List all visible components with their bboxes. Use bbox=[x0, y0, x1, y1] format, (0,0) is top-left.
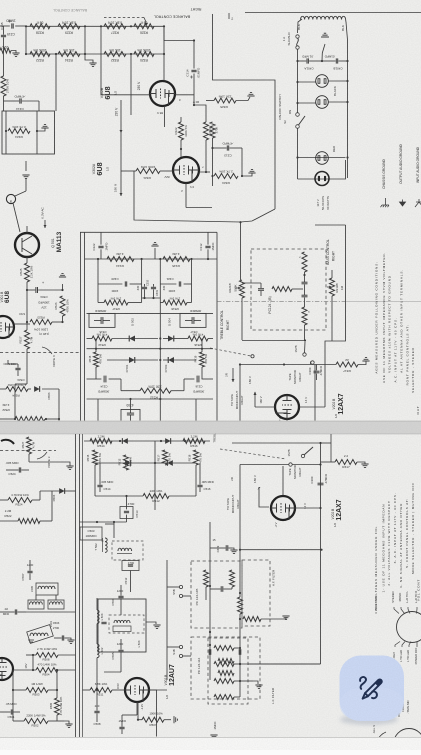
wire second rail bbox=[26, 53, 164, 55]
ground R317 bbox=[358, 361, 366, 365]
resistor R523 120K bbox=[14, 323, 30, 325]
resistor R527 4.7M bbox=[26, 322, 28, 330]
capacitor pc board in bbox=[258, 288, 264, 290]
floating edit button shadow bbox=[0, 0, 1, 1]
resistor 22K input bbox=[0, 48, 11, 53]
wire hf top rail bbox=[240, 549, 322, 551]
resistor pc112 r2 bbox=[218, 671, 234, 676]
resistor R321 100K 10% bbox=[121, 170, 136, 172]
transistor Q501 MA113 bbox=[15, 233, 39, 257]
capacitor C214 .47MFD bbox=[19, 98, 21, 103]
wire top border bbox=[245, 12, 421, 14]
wire big box corner bbox=[320, 663, 322, 665]
wire bottom-left links bbox=[51, 491, 53, 521]
wire D506 junction bbox=[58, 389, 60, 419]
wire C314 to R324 bbox=[194, 105, 206, 112]
triode V301Bb arc bbox=[1, 440, 14, 444]
resistor pc bottom bbox=[302, 307, 307, 325]
diode D506b bbox=[59, 488, 65, 494]
ground power bbox=[321, 33, 329, 37]
resistor R515 47K 5% vertical bbox=[94, 352, 99, 367]
resistor R317b 22 bbox=[335, 460, 357, 465]
resistor R511 6.8K 10% bbox=[90, 688, 112, 693]
resistor pc165 r2 bbox=[230, 570, 235, 587]
diode D501 bbox=[129, 357, 135, 363]
resistor lf r4 bbox=[214, 695, 234, 700]
wire long drop from divider bbox=[55, 54, 57, 111]
capacitor C318 330 bbox=[142, 286, 147, 288]
switch S1B tape monitor bbox=[303, 353, 306, 356]
resistor R503 1M bbox=[26, 688, 48, 693]
capacitor C313 .47MFD bbox=[226, 145, 228, 150]
dashed box HF filter bbox=[242, 560, 270, 626]
resistor R144 2.2M bbox=[107, 257, 134, 262]
wire matrix rail bottom strip bbox=[84, 440, 210, 442]
resistor pc board series bbox=[272, 287, 292, 292]
wire V302B cathode to C314 bbox=[175, 94, 194, 96]
wire V302A plate drop bbox=[185, 183, 187, 208]
wire center links bbox=[142, 297, 161, 299]
pen scribble icon bbox=[360, 677, 383, 700]
wire L coils link bbox=[96, 598, 98, 610]
wire after switch bbox=[297, 128, 299, 179]
ground line cap bbox=[322, 44, 325, 61]
lamp a bbox=[6, 194, 15, 203]
resistor R507 100K 10% bbox=[142, 717, 164, 722]
ground L504 bbox=[146, 622, 156, 624]
ground R323 bbox=[242, 173, 252, 176]
ground R325 bbox=[236, 97, 250, 101]
resistor R504b 470 bbox=[36, 668, 58, 673]
capacitor C219 1MFD bbox=[11, 23, 13, 28]
wire feed to treble pot bbox=[240, 222, 242, 280]
switch S5B bbox=[179, 585, 182, 588]
resistor lf r1 bbox=[214, 646, 234, 651]
capacitor pc112 c2 bbox=[238, 649, 240, 655]
triode V202B 1/2 12AX7 bbox=[275, 395, 299, 419]
diode D514 bbox=[165, 438, 171, 444]
resistor R317 22 bbox=[317, 364, 337, 366]
ground stub bottom-left bbox=[62, 462, 70, 466]
input audio ground symbol bbox=[415, 199, 421, 207]
dashed box PC124-165 bbox=[191, 561, 242, 628]
resistor R526 470K bbox=[60, 296, 65, 316]
resistor R222 100K 5% bbox=[30, 52, 50, 57]
fold band divider bbox=[0, 421, 421, 435]
resistor R513b 47K 5% bbox=[124, 455, 129, 470]
resistor R325 22K 10% bbox=[206, 100, 214, 102]
wire phono box bottom bbox=[248, 663, 321, 665]
wire rail links bbox=[25, 26, 27, 54]
inductor L503 bbox=[97, 610, 99, 624]
diode D504 bbox=[168, 336, 174, 342]
capacitor pc 1 bbox=[302, 281, 308, 283]
wire tube grid up bbox=[282, 466, 284, 496]
wafer stubs top bbox=[394, 607, 399, 614]
resistor 270K 10% bbox=[1, 76, 6, 96]
chassis ground symbol bbox=[381, 205, 390, 207]
capacitor pc 2 bbox=[302, 294, 308, 296]
wire tube V202B leads bbox=[255, 406, 275, 408]
resistor R324 bbox=[204, 122, 209, 140]
outlet AC red 2 bbox=[315, 172, 329, 186]
inductor L504 dashed box bbox=[109, 615, 144, 633]
wire coil row bbox=[26, 611, 76, 613]
resistor R517b 47K bbox=[163, 450, 168, 465]
wire V302B grid down bbox=[164, 106, 166, 127]
diode D513 bbox=[122, 438, 128, 444]
capacitor C401B .01MFD bbox=[335, 58, 337, 63]
resistor R514b 2.2M bbox=[90, 439, 112, 444]
ground L501 bbox=[69, 638, 71, 640]
output audio ground symbol bbox=[400, 200, 406, 207]
wire tube bottom to R507 bbox=[137, 703, 139, 720]
triode V302Bb 1/2 12AU7 bbox=[125, 678, 149, 702]
resistor R332 10K 5% bbox=[104, 52, 126, 57]
wire power boundary step bbox=[213, 14, 276, 209]
resistor R517 27K 5% bbox=[104, 300, 128, 305]
switch S1B bottom bbox=[301, 454, 304, 457]
wire top row bottom strip bbox=[232, 442, 321, 444]
wire main vertical x320 bbox=[320, 443, 322, 664]
potentiometer R221B 500K treble bbox=[240, 280, 245, 298]
resistor lf r3 bbox=[214, 679, 234, 684]
resistor R323 2.7K 10% bbox=[212, 138, 214, 176]
wire main vertical x167 bbox=[166, 560, 168, 680]
ground R507 bbox=[174, 716, 177, 723]
switch S2 on-off bbox=[296, 113, 300, 117]
ground C504 bbox=[62, 284, 64, 290]
wire feeds T502 bbox=[113, 522, 115, 538]
outlet AC red 1 bbox=[316, 152, 329, 165]
wire box feeds bbox=[5, 111, 7, 131]
ground input bbox=[11, 51, 16, 54]
wire matrix line C bbox=[87, 398, 214, 400]
wire x345 short bbox=[330, 434, 332, 462]
ground balance network bbox=[89, 63, 96, 66]
dashed box PC124-B bbox=[251, 249, 326, 330]
floating edit button bbox=[340, 656, 405, 722]
wire lf out bbox=[240, 663, 321, 665]
resistor R515b 47K 5% bbox=[93, 450, 98, 465]
capacitor pc112 c1 bbox=[208, 649, 210, 655]
capacitor pc165 c1 bbox=[220, 586, 222, 592]
wire lamp link bbox=[25, 161, 27, 171]
wire matrix verticals bottom bbox=[94, 465, 96, 496]
fuse 1A SLO-BLO bbox=[298, 19, 303, 33]
wire pc165 links bbox=[205, 587, 207, 600]
wire tube right lead bottom bbox=[295, 507, 321, 509]
wire long run to PC board bbox=[134, 171, 275, 222]
resistor R326 68K bbox=[134, 24, 154, 29]
capacitor C503 100MFD bbox=[80, 527, 102, 540]
inductor small boxes bbox=[28, 600, 44, 609]
wire left edge verticals bbox=[12, 670, 14, 721]
capacitor C514b .005MFD bbox=[97, 484, 102, 486]
box input network bbox=[2, 111, 55, 154]
resistor R145 2.2M bbox=[163, 257, 190, 262]
inductor L505 bbox=[36, 583, 58, 595]
resistor R234 10K 5% bbox=[58, 52, 80, 57]
wire matrix top rail bbox=[85, 258, 218, 260]
resistor R522 2.2M bbox=[14, 395, 16, 419]
dashed switch linkage bbox=[210, 348, 251, 356]
wire C513 to T502 bbox=[80, 521, 127, 523]
resistor R519 47K 5% vertical bbox=[200, 352, 205, 367]
wire balance wiper dashed bbox=[104, 17, 144, 19]
wire plate lead V302B bbox=[101, 94, 150, 96]
wire grid stub bbox=[286, 419, 288, 421]
resistor hf vertical bbox=[238, 597, 243, 614]
triode V202Bb 1/2 12AX7 bbox=[271, 496, 295, 520]
dashed box PC124-112 bbox=[191, 637, 260, 699]
wire matrix mid line bbox=[87, 312, 214, 314]
ground R317b bbox=[357, 462, 365, 464]
transformer T502 bbox=[105, 538, 107, 552]
capacitor C320 1000 bbox=[98, 283, 122, 285]
triode V501 bottom left bbox=[0, 658, 13, 680]
resistor pc top bbox=[302, 252, 307, 272]
resistor R525 2.2K bbox=[26, 257, 28, 263]
wire to ground stub bbox=[85, 54, 93, 63]
resistor R228 68K bbox=[30, 24, 50, 29]
resistor R512 22K 10% bbox=[121, 390, 140, 392]
wire R323 node down bbox=[212, 176, 214, 186]
wire top rail bbox=[26, 25, 164, 27]
wire right vertical low bbox=[149, 690, 157, 737]
switch wafer mode selector bbox=[397, 612, 421, 643]
resistor R524 4.7K/1W bbox=[0, 388, 6, 390]
wire R522 up bbox=[14, 384, 16, 395]
resistor lf r2 bbox=[214, 662, 234, 667]
wire dashed measure line bbox=[0, 352, 80, 354]
capacitor C504 100MFD bbox=[27, 289, 35, 291]
resistor R508 2.7K bbox=[36, 653, 58, 658]
transformer primary winding bbox=[301, 16, 346, 19]
capacitor C514 .005MFD bbox=[87, 378, 102, 380]
inductor L502 bbox=[97, 644, 99, 658]
wire pot bottom bbox=[241, 298, 243, 340]
resistor R527b 4.7M bbox=[27, 437, 32, 454]
dashed box C512 coil bbox=[112, 541, 143, 560]
dashed box LF filter bbox=[208, 638, 248, 704]
wire node A bbox=[164, 40, 194, 42]
resistor R512b 22K 10% bbox=[95, 495, 143, 497]
triode V302B 1/2 6U8 bbox=[150, 81, 175, 106]
resistor R502 220K bbox=[24, 719, 48, 724]
wire top rail to power bbox=[163, 26, 165, 40]
resistor R516b 2.2M bbox=[183, 439, 205, 444]
capacitor C516 .005MFD bbox=[202, 378, 213, 380]
page edge bbox=[0, 737, 421, 750]
wire collector Q501 bbox=[26, 226, 28, 233]
switch wafer 2 bbox=[394, 729, 421, 755]
ground lf bbox=[240, 680, 253, 682]
capacitor C516b .005MFD bbox=[197, 484, 202, 486]
potentiometer R319B 1M bass bbox=[330, 278, 335, 296]
wire V302A cathode bbox=[199, 150, 206, 172]
wire long measure line bbox=[217, 301, 345, 303]
wire main vertical x210 bbox=[209, 522, 211, 680]
diode D516 bbox=[167, 460, 173, 466]
switch S4B bbox=[179, 645, 182, 648]
wire 230V feed arrow bbox=[120, 100, 122, 133]
wire V302B top feed bbox=[163, 41, 165, 82]
resistor R327 6.8K bbox=[104, 24, 126, 29]
box tone network enclosure bbox=[80, 231, 217, 233]
wire dashed bottom measure bbox=[0, 450, 56, 452]
resistor R324b 270K bbox=[210, 122, 215, 138]
capacitor C401A .01MFD bbox=[298, 60, 307, 62]
dashed linkage bottom bbox=[220, 449, 286, 459]
wire lf vertical bbox=[239, 614, 241, 697]
outlet AC black 2 bbox=[316, 96, 329, 109]
resistor R513 47K 5% bbox=[92, 336, 112, 341]
resistor R518b 47K bbox=[194, 450, 199, 465]
diode D502 bbox=[129, 336, 135, 342]
ground tone box top bbox=[151, 243, 158, 246]
diode D515 bbox=[125, 460, 131, 466]
ground R224 bbox=[37, 128, 45, 131]
resistor pc112 r1 bbox=[218, 659, 234, 664]
wire double vertical left bbox=[80, 232, 82, 421]
diode D503 bbox=[168, 357, 174, 363]
wire double vertical bottom bbox=[75, 434, 77, 737]
resistor R322 330K 5% bbox=[180, 117, 182, 122]
wire matrix line B bbox=[87, 348, 214, 350]
wire monitor row bbox=[240, 364, 310, 366]
capacitor C314 .01MFD bbox=[193, 41, 195, 69]
capacitor C319 330 bbox=[151, 286, 156, 288]
wire matrix verticals upper bbox=[159, 259, 161, 313]
diode D506 bbox=[28, 388, 31, 390]
outlet AC black 1 bbox=[316, 75, 329, 88]
ground hf bbox=[282, 616, 289, 619]
wire bass feed bbox=[325, 225, 346, 407]
ground R502 bbox=[64, 721, 69, 724]
wire right border power bbox=[346, 22, 348, 178]
box coil section bbox=[98, 599, 146, 652]
capacitor C321 1000 bbox=[160, 283, 176, 285]
wire matrix bottom stubs bbox=[159, 399, 161, 421]
wire 180V arrow bbox=[120, 171, 122, 196]
ground bottom far bbox=[210, 735, 217, 738]
resistor pc165 r1 bbox=[204, 570, 209, 587]
wafer stubs bottom bbox=[395, 642, 400, 648]
triode V302A 1/2 6U8 bbox=[173, 157, 199, 183]
resistor R505 4.7K bbox=[55, 698, 60, 715]
resistor R518 27K 5% bbox=[163, 300, 187, 305]
resistor hf series bbox=[243, 617, 261, 622]
wire center column bbox=[120, 604, 122, 615]
box tape monitor enclosure bbox=[239, 365, 241, 422]
wire R523 to R526 bbox=[52, 321, 63, 323]
resistor R320 100K 5% bbox=[134, 52, 154, 57]
wire tube V302Bb leads bbox=[149, 689, 167, 691]
wire fuse down bbox=[297, 49, 299, 112]
ground phono bbox=[22, 175, 29, 178]
triode V301B 1/2 6U8 bbox=[0, 316, 14, 338]
wire monitor row bottom bbox=[240, 464, 289, 466]
resistor R224 2.7K 10% bbox=[8, 129, 30, 134]
resistor R524b 4.7K/1W bbox=[8, 498, 32, 503]
resistor R229 6.8K bbox=[58, 24, 80, 29]
resistor R516 47K 5% bbox=[188, 336, 208, 341]
